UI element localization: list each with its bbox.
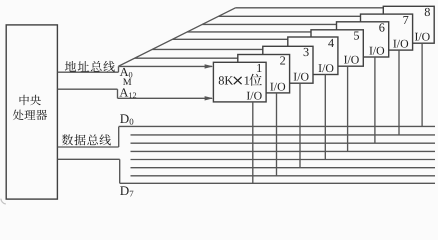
wire: data line D0 bbox=[119, 125, 435, 127]
wire: address branch to chip 5 bbox=[187, 31, 311, 33]
svg-text:I/O: I/O bbox=[318, 61, 334, 75]
svg-text:I/O: I/O bbox=[270, 79, 286, 93]
svg-text:I/O: I/O bbox=[246, 88, 262, 102]
memory chip U6 (8K x 1bit) bbox=[337, 22, 389, 57]
label 数据总线 (data bus) bbox=[62, 134, 73, 145]
wire: address branch to chip 6 bbox=[202, 23, 336, 25]
svg-text:3: 3 bbox=[303, 45, 309, 59]
wire: A0 line to chip 1 with arrow bbox=[119, 65, 213, 67]
CPU label line 2: 处理器 bbox=[13, 110, 24, 120]
wire: data line D1 bbox=[131, 134, 436, 136]
wire: address bus lower line from CPU bbox=[58, 88, 118, 90]
wire: address branch to chip 4 bbox=[172, 38, 287, 40]
svg-text:I/O: I/O bbox=[344, 53, 360, 67]
wire: data bus upper line from CPU bbox=[58, 146, 119, 148]
svg-text:8: 8 bbox=[424, 5, 430, 19]
arrowhead into chip 1 A12 input bbox=[205, 96, 214, 100]
wire: address bus upper line from CPU bbox=[58, 71, 119, 73]
wire: data line D5 bbox=[131, 167, 436, 169]
svg-text:4: 4 bbox=[328, 36, 334, 50]
svg-text:1: 1 bbox=[244, 73, 250, 87]
wire: address branch to chip 7 bbox=[219, 15, 361, 17]
wire: chip 1 I/O pin to data line D7 bbox=[252, 102, 254, 183]
wire: chip 3 I/O pin to data line D5 bbox=[299, 83, 301, 168]
wire: data line D3 bbox=[131, 150, 436, 152]
wire: jog down to A12 line bbox=[117, 89, 119, 98]
wire: address fan-out diagonal bbox=[119, 8, 236, 66]
wire: chip 2 I/O pin to data line D6 bbox=[276, 93, 278, 176]
memory chip U8 (8K x 1bit) bbox=[383, 6, 434, 43]
wire: chip 4 I/O pin to data line D4 bbox=[324, 75, 326, 160]
wire: address branch to chip 3 bbox=[152, 48, 263, 50]
memory chip U2 (8K x 1bit) bbox=[238, 55, 290, 93]
svg-text:5: 5 bbox=[353, 29, 359, 43]
svg-text:8K: 8K bbox=[218, 73, 233, 87]
memory chip U4 (8K x 1bit) bbox=[288, 37, 338, 75]
memory chip U1 (8K x 1bit) bbox=[213, 62, 266, 102]
CPU label line 1: 中央 bbox=[20, 95, 29, 105]
wire: chip 7 I/O pin to data line D1 bbox=[398, 50, 400, 135]
wire: jog down to D7 line bbox=[119, 159, 121, 183]
svg-text:7: 7 bbox=[403, 13, 409, 27]
memory chip U7 (8K x 1bit) bbox=[361, 14, 413, 50]
arrowhead into chip 1 A0 input bbox=[205, 64, 214, 68]
wire: data line D4 bbox=[131, 159, 436, 161]
svg-text:I/O: I/O bbox=[369, 43, 385, 57]
wire: address branch to chip 8 bbox=[236, 7, 384, 9]
label 地址总线 (address bus) bbox=[65, 61, 76, 72]
wire: data bus lower line from CPU bbox=[58, 158, 120, 160]
CPU block 中央处理器 bbox=[6, 25, 57, 199]
svg-text:6: 6 bbox=[379, 21, 385, 35]
wire: data line D6 bbox=[131, 175, 436, 177]
wire: chip 5 I/O pin to data line D3 bbox=[347, 66, 349, 151]
wire: chip 8 I/O pin to data line D0 bbox=[421, 43, 423, 126]
wire: address branch to chip 2 bbox=[135, 57, 238, 59]
faint page-frame corner smudge bottom-left bbox=[1, 199, 6, 204]
wire: data line D7 bbox=[120, 182, 435, 184]
wire: chip 6 I/O pin to data line D2 bbox=[374, 57, 376, 143]
wire: A12 line to chip 1 with arrow bbox=[118, 97, 213, 99]
wire: jog up to A0 line bbox=[118, 66, 120, 72]
wire: jog up to D0 line bbox=[118, 127, 120, 147]
memory chip U3 (8K x 1bit) bbox=[263, 46, 313, 83]
wire: data line D2 bbox=[131, 142, 436, 144]
svg-text:2: 2 bbox=[280, 53, 286, 67]
svg-text:I/O: I/O bbox=[414, 30, 430, 44]
svg-text:I/O: I/O bbox=[393, 37, 409, 51]
svg-text:1: 1 bbox=[256, 61, 262, 75]
svg-text:I/O: I/O bbox=[293, 70, 309, 84]
memory chip U5 (8K x 1bit) bbox=[311, 30, 363, 66]
